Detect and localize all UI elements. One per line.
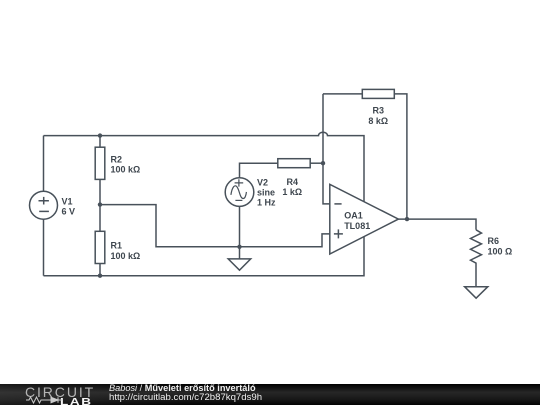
svg-text:1 kΩ: 1 kΩ xyxy=(282,187,302,197)
svg-text:sine: sine xyxy=(257,187,275,197)
svg-text:V1: V1 xyxy=(62,196,73,206)
svg-text:100 kΩ: 100 kΩ xyxy=(111,165,141,175)
svg-text:8 kΩ: 8 kΩ xyxy=(368,116,388,126)
svg-text:OA1: OA1 xyxy=(344,210,363,220)
svg-text:1 Hz: 1 Hz xyxy=(257,198,276,208)
svg-text:R6: R6 xyxy=(488,236,500,246)
svg-text:R2: R2 xyxy=(111,154,123,164)
svg-text:R3: R3 xyxy=(373,106,385,116)
svg-text:100 kΩ: 100 kΩ xyxy=(111,251,141,261)
svg-text:V2: V2 xyxy=(257,177,268,187)
svg-text:TL081: TL081 xyxy=(344,221,370,231)
svg-text:R4: R4 xyxy=(287,177,299,187)
svg-text:100 Ω: 100 Ω xyxy=(488,246,513,256)
svg-text:R1: R1 xyxy=(111,241,123,251)
svg-text:6 V: 6 V xyxy=(62,206,76,216)
